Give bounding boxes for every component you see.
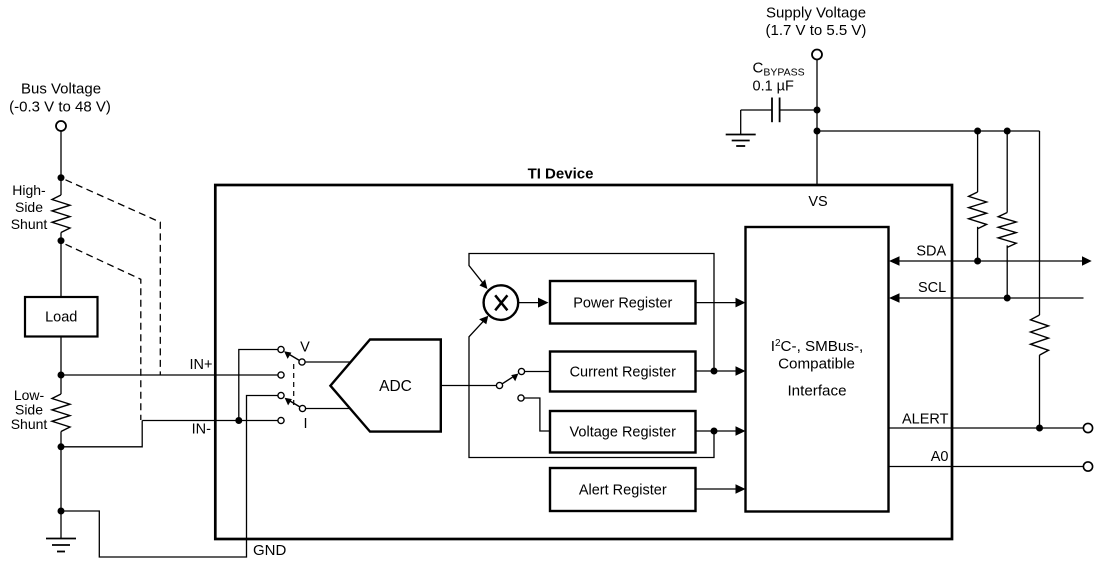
svg-text:A0: A0	[931, 449, 949, 465]
svg-text:I: I	[303, 416, 307, 432]
svg-text:Load: Load	[45, 310, 77, 326]
svg-text:0.1 µF: 0.1 µF	[753, 79, 795, 95]
svg-text:Bus Voltage: Bus Voltage	[21, 81, 101, 98]
svg-text:V: V	[300, 340, 310, 356]
svg-text:I2C-, SMBus-,: I2C-, SMBus-,	[771, 338, 864, 356]
svg-text:SDA: SDA	[916, 244, 946, 260]
svg-text:Shunt: Shunt	[11, 216, 48, 232]
svg-text:Compatible: Compatible	[778, 356, 855, 373]
svg-text:IN+: IN+	[190, 357, 213, 373]
svg-text:Power Register: Power Register	[573, 296, 672, 312]
svg-text:ADC: ADC	[379, 378, 412, 395]
svg-text:Voltage Register: Voltage Register	[570, 425, 677, 441]
svg-text:(-0.3 V to 48 V): (-0.3 V to 48 V)	[9, 99, 111, 116]
svg-text:VS: VS	[808, 194, 827, 210]
svg-text:Interface: Interface	[787, 383, 846, 400]
svg-text:ALERT: ALERT	[902, 412, 949, 428]
svg-text:(1.7 V to 5.5 V): (1.7 V to 5.5 V)	[766, 22, 867, 39]
svg-text:Current Register: Current Register	[570, 365, 677, 381]
svg-text:High-: High-	[12, 182, 46, 198]
svg-text:IN-: IN-	[192, 422, 212, 438]
svg-text:SCL: SCL	[918, 280, 946, 296]
svg-text:Supply Voltage: Supply Voltage	[766, 5, 866, 22]
svg-text:Shunt: Shunt	[11, 416, 48, 432]
svg-text:GND: GND	[253, 542, 287, 559]
svg-text:Alert Register: Alert Register	[579, 483, 667, 499]
svg-text:Side: Side	[15, 199, 43, 215]
svg-text:TI Device: TI Device	[528, 166, 594, 183]
